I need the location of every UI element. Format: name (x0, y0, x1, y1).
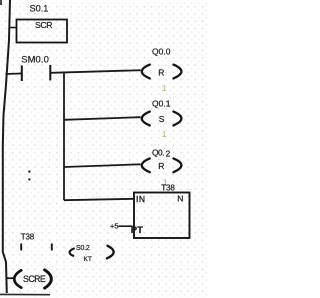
svg-text:N: N (177, 194, 183, 204)
bottom border line (0, 293, 50, 295)
svg-text:S0.2: S0.2 (76, 245, 90, 252)
branch wire to coil Q0.2 (64, 164, 141, 167)
timer box T38 TON (134, 193, 190, 239)
branch vertical wire (63, 72, 65, 200)
coil Q0.0 reset right paren (173, 65, 181, 79)
contact T38 right bar (51, 244, 53, 251)
svg-text:Q0.1: Q0.1 (152, 99, 171, 109)
svg-text:KT: KT (84, 256, 92, 263)
svg-text:R: R (158, 67, 164, 77)
wire stub rail to SCR box (9, 27, 17, 29)
coil Q0.1 set left paren (142, 112, 150, 126)
coil SCRE right paren (45, 270, 52, 288)
svg-text:R: R (158, 161, 164, 171)
svg-text:IN: IN (136, 194, 146, 204)
svg-text:Q0.: Q0. (152, 147, 164, 157)
svg-text:SCRE: SCRE (23, 274, 46, 284)
coil SCRE left paren (14, 270, 21, 287)
wire dash +5 to PT (119, 225, 133, 227)
branch wire to timer T38 IN (64, 199, 134, 200)
svg-text:S: S (159, 114, 165, 124)
coil Q0.2 reset right paren (173, 158, 181, 172)
contact SM0.0 right bar (49, 65, 51, 81)
svg-text:T38: T38 (21, 232, 35, 241)
svg-text:+5: +5 (110, 221, 119, 230)
wire contact to coil Q0.0 (51, 70, 141, 73)
wire rail to contact SM0.0 (6, 73, 22, 76)
svg-text:PT: PT (131, 225, 143, 236)
coil SCRT right paren (107, 246, 114, 258)
svg-text:SCR: SCR (35, 20, 52, 30)
svg-text:1: 1 (162, 83, 167, 93)
SCR box S0.1 (17, 20, 68, 43)
coil Q0.2 reset left paren (142, 158, 150, 172)
wire rail to coil SCRE (6, 277, 16, 279)
continuation dots on rail (28, 170, 30, 172)
svg-text:S0.1: S0.1 (30, 3, 49, 13)
top-left border corner mark (0, 0, 2, 5)
contact T38 left bar (20, 244, 22, 251)
coil Q0.1 set right paren (173, 112, 181, 126)
contact SM0.0 left bar (21, 66, 23, 82)
svg-text:Q0.0: Q0.0 (152, 46, 171, 56)
coil SCRT left paren fragment (70, 249, 74, 256)
svg-text:SM0.0: SM0.0 (21, 54, 49, 65)
svg-text:1: 1 (162, 129, 167, 139)
coil Q0.0 reset left paren (142, 65, 150, 79)
left power rail (3, 0, 10, 293)
svg-text:T38: T38 (161, 183, 175, 192)
branch wire to coil Q0.1 (64, 117, 141, 120)
svg-text:2: 2 (166, 149, 171, 159)
